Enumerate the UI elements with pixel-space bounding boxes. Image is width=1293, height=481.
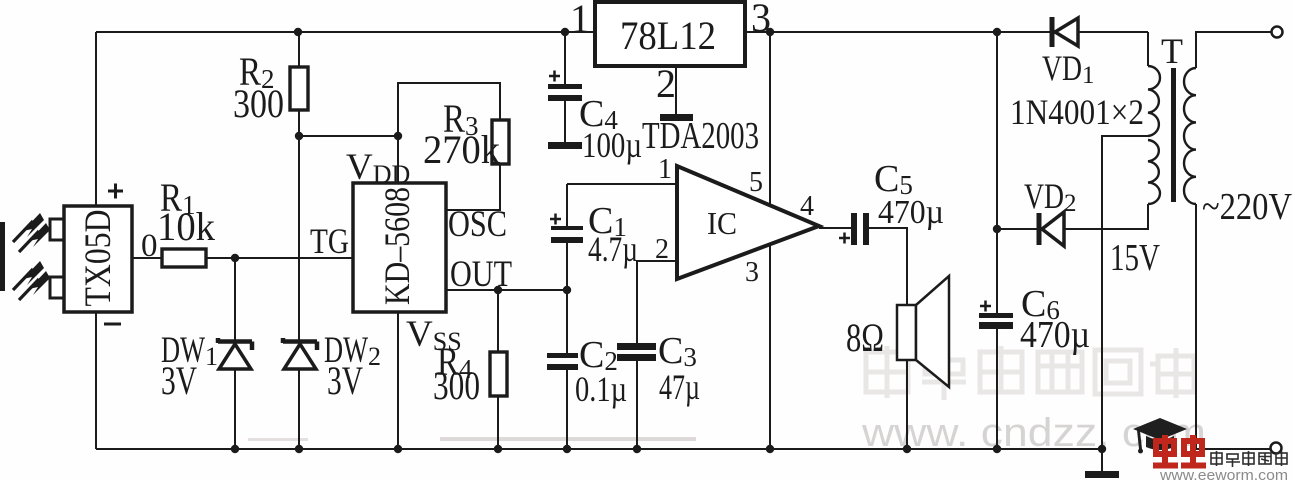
IR receiver TX05D — [0, 206, 132, 312]
wire R2 leads — [298, 32, 300, 136]
zener diode DW2 — [283, 338, 317, 369]
ground bar 78L12 pin2 — [660, 114, 693, 121]
svg-text:KD–5608: KD–5608 — [377, 187, 417, 305]
svg-text:300: 300 — [433, 363, 480, 408]
regulator 78L12 — [595, 2, 745, 66]
resistor R2 — [290, 67, 308, 110]
wire OUT net — [446, 289, 567, 291]
svg-text:47µ: 47µ — [659, 367, 700, 407]
wire IC pin5 — [769, 32, 771, 206]
wire DW1 branch — [234, 258, 236, 449]
svg-text:4: 4 — [800, 191, 814, 222]
op-amp IC TDA2003 — [677, 166, 819, 279]
ground bar C4 — [548, 142, 582, 149]
wire R1 to TG node — [206, 257, 353, 259]
wire C4 leads — [564, 32, 566, 142]
svg-text:10k: 10k — [157, 204, 215, 249]
wire DC rail right — [996, 32, 998, 449]
capacitor C3 — [617, 343, 656, 361]
svg-text:2: 2 — [655, 234, 669, 265]
logo chongchong red — [1153, 435, 1206, 466]
svg-text:T: T — [1161, 31, 1183, 71]
svg-text:0.1µ: 0.1µ — [575, 369, 627, 409]
svg-text:www.eeworm.com: www.eeworm.com — [1159, 467, 1288, 481]
svg-text:3V: 3V — [161, 358, 197, 403]
svg-text:TG: TG — [310, 221, 349, 261]
capacitor C5 — [839, 213, 869, 245]
wire R1 left lead — [132, 257, 162, 259]
wire bottom ground rail — [96, 448, 1102, 450]
svg-text:3: 3 — [751, 0, 771, 40]
svg-text:4.7µ: 4.7µ — [588, 229, 638, 269]
wire center tap 15V — [1102, 136, 1148, 471]
terminal bottom right — [1271, 443, 1282, 454]
wire left drop to TX05D — [95, 32, 97, 206]
speaker 8 ohm — [897, 276, 949, 387]
wire IC pin3 — [769, 244, 771, 449]
ground symbol bottom — [1085, 471, 1119, 478]
zener diode DW1 — [218, 338, 252, 369]
wire IC pin2 to C3 — [637, 261, 677, 449]
resistor R3 — [492, 120, 509, 164]
svg-text:1: 1 — [658, 154, 672, 185]
wire primary bottom terminal — [1196, 204, 1270, 449]
wire IC output to C5 speaker — [819, 228, 907, 449]
logo graduation cap — [1133, 418, 1187, 454]
wire DW2 branch — [298, 136, 300, 449]
resistor R1 — [162, 249, 206, 267]
svg-text:TX05D: TX05D — [78, 210, 119, 307]
diode VD1 — [1052, 17, 1078, 47]
svg-text:1N4001×2: 1N4001×2 — [1010, 92, 1144, 132]
wire TX05D bottom to rail — [95, 312, 97, 449]
wire R3 OSC loop — [398, 83, 500, 210]
wire top rail right — [745, 32, 1148, 66]
svg-text:300: 300 — [233, 81, 284, 126]
svg-text:100µ: 100µ — [582, 125, 642, 165]
svg-text:78L12: 78L12 — [620, 13, 716, 58]
diode VD2 — [1039, 212, 1064, 246]
svg-text:OUT: OUT — [450, 254, 512, 295]
svg-text:470µ: 470µ — [1020, 314, 1090, 356]
wire C2 leads — [566, 290, 568, 449]
capacitor C2 — [547, 353, 578, 370]
transformer T — [1148, 66, 1196, 204]
wire node R2 to VDD — [299, 135, 398, 137]
IC U1 KD-5608 — [353, 183, 446, 312]
svg-text:8Ω: 8Ω — [846, 315, 884, 360]
capacitor C1 — [550, 214, 583, 244]
svg-text:470µ: 470µ — [878, 194, 944, 231]
wire 78L12 pin2 stub — [675, 66, 677, 114]
wire VSS pin to rail — [397, 312, 399, 449]
svg-text:270k: 270k — [423, 127, 500, 172]
wire C1 to pin1 — [567, 184, 677, 290]
svg-text:OSC: OSC — [448, 204, 507, 245]
capacitor C4 — [548, 71, 582, 102]
svg-text:IC: IC — [707, 205, 737, 241]
svg-text:0: 0 — [141, 228, 158, 264]
wire VDD pin stub — [397, 136, 399, 183]
logo site text — [1211, 451, 1287, 467]
capacitor C6 — [979, 301, 1013, 330]
svg-text:15V: 15V — [1110, 237, 1160, 279]
svg-text:5: 5 — [749, 167, 763, 198]
watermark site name — [866, 346, 1194, 400]
wire top rail left — [96, 31, 595, 33]
wire VD2 net — [997, 204, 1148, 229]
svg-text:3V: 3V — [327, 358, 363, 403]
svg-text:2: 2 — [656, 61, 676, 106]
wire primary top terminal — [1196, 32, 1271, 68]
wire R4 leads — [497, 290, 499, 449]
svg-text:1: 1 — [570, 0, 590, 41]
svg-text:3: 3 — [745, 257, 759, 288]
svg-text:~220V: ~220V — [1202, 186, 1292, 228]
svg-text:TDA2003: TDA2003 — [642, 115, 759, 157]
terminal top right — [1272, 27, 1283, 38]
minus terminal mark — [104, 323, 121, 326]
plus terminal mark — [108, 184, 123, 199]
resistor R4 — [490, 352, 507, 396]
